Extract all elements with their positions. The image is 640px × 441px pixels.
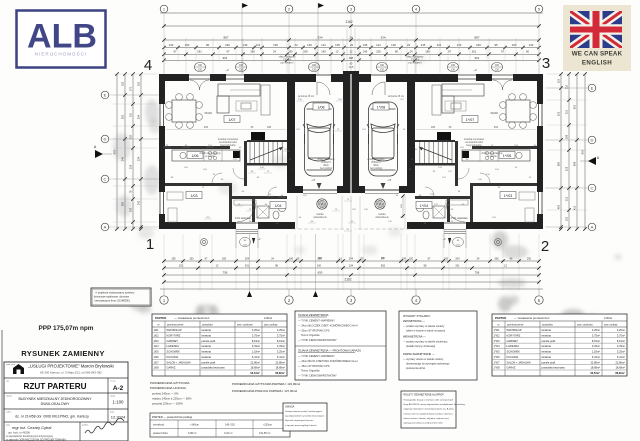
left witness lines: [113, 73, 157, 75]
svg-text:24: 24: [349, 35, 353, 39]
svg-text:254: 254: [138, 114, 141, 119]
svg-text:odwodnienie: odwodnienie: [313, 216, 327, 219]
stairs right unit: [451, 142, 453, 163]
svg-text:1*/08: 1*/08: [377, 106, 385, 110]
room table left unit: [152, 314, 287, 376]
window W2 left unit: [159, 192, 161, 214]
svg-text:terakota: terakota: [202, 328, 212, 332]
svg-text:160: 160: [185, 43, 190, 47]
svg-text:✶ projekcie zastosowano system: ✶ projekcie zastosowano systemy: [95, 291, 135, 295]
svg-text:97: 97: [448, 50, 451, 54]
svg-text:NIERUCHOMOŚCI: NIERUCHOMOŚCI: [35, 50, 88, 57]
svg-text:3,25m²: 3,25m²: [277, 350, 285, 354]
window W2 right unit: [541, 192, 543, 214]
svg-text:PPP 175,07m npm: PPP 175,07m npm: [39, 325, 94, 332]
svg-text:280: 280: [122, 201, 125, 206]
svg-text:terakota: terakota: [542, 333, 552, 337]
svg-text:POWIERZCHNIA LICZONA:: POWIERZCHNIA LICZONA:: [150, 386, 187, 390]
svg-text:6,41m²: 6,41m²: [592, 355, 600, 359]
svg-text:SCHOWEK: SCHOWEK: [507, 350, 521, 354]
svg-text:1/07: 1/07: [154, 360, 160, 364]
svg-text:8,19m²: 8,19m²: [277, 339, 285, 343]
svg-text:1/04: 1/04: [154, 344, 160, 348]
tv sideboard left unit: [261, 85, 270, 115]
svg-text:1/06: 1/06: [192, 154, 199, 158]
svg-text:332: 332: [179, 265, 184, 268]
entrance steps left unit: [236, 229, 258, 231]
south wall left unit: [159, 222, 236, 229]
french door with arc right unit: [492, 74, 513, 76]
sheet left border line: [1, 330, 3, 441]
svg-text:wg odpowiednich rysunków branż: wg odpowiednich rysunków branżowych.: [285, 415, 325, 418]
svg-text:22,86m²: 22,86m²: [615, 360, 625, 364]
svg-text:dz. nr 214/58 obr. 0006 KIELPI: dz. nr 214/58 obr. 0006 KIELPINO, gm. Ka…: [15, 415, 89, 419]
svg-text:1*/02: 1*/02: [494, 333, 501, 337]
interior wall office right unit: [470, 183, 537, 186]
north window right unit: [458, 74, 476, 76]
top axis line: [160, 12, 543, 14]
north window left unit: [226, 74, 244, 76]
svg-text:— podano wymiary w świetle: — podano wymiary w świetle ościeży: [403, 325, 445, 328]
svg-text:— zestawienie pomieszczeń: — zestawienie pomieszczeń: [514, 316, 550, 320]
svg-text:121: 121: [437, 43, 442, 47]
svg-text:1,18m²: 1,18m²: [252, 350, 260, 354]
svg-text:ŚCIANA ZEWNĘTRZNA: ŚCIANA ZEWNĘTRZNA: [298, 312, 329, 317]
svg-text:97: 97: [501, 50, 504, 54]
interior wall bath left unit: [232, 196, 287, 199]
svg-text:1/07: 1/07: [229, 118, 236, 122]
svg-text:130: 130: [529, 43, 534, 47]
WE CAN SPEAK ENGLISH badge: [563, 5, 631, 71]
svg-text:242: 242: [138, 200, 141, 205]
interior wall stairs right unit: [455, 141, 458, 186]
svg-text:262: 262: [122, 114, 125, 119]
garage door opening right: [365, 189, 399, 191]
svg-text:terakota: terakota: [202, 333, 212, 337]
door marker right entrance: [453, 237, 464, 246]
svg-text:130: 130: [307, 43, 312, 47]
svg-text:chudy murowany: chudy murowany: [367, 158, 385, 161]
bottom witness lines: [163, 234, 165, 290]
svg-text:3,75m²: 3,75m²: [277, 333, 285, 337]
right dimension chain x569: [568, 74, 570, 229]
north wall right unit: [513, 74, 543, 81]
title block table: [4, 362, 128, 441]
right section arrow A: [588, 157, 596, 165]
north wall left unit: [159, 74, 189, 81]
interior wall bath right unit: [415, 196, 470, 199]
svg-text:10,5: 10,5: [349, 66, 354, 69]
svg-text:22,86m²: 22,86m²: [275, 360, 285, 364]
svg-text:121: 121: [256, 43, 261, 47]
svg-text:100: 100: [317, 265, 322, 268]
svg-text:pow. podłogi: pow. podłogi: [604, 324, 618, 327]
svg-text:3,75m²: 3,75m²: [592, 333, 600, 337]
svg-text:SALON + JADALNIA: SALON + JADALNIA: [167, 360, 191, 364]
svg-text:−15: −15: [311, 178, 316, 182]
svg-text:terakota: terakota: [542, 350, 552, 354]
svg-text:210: 210: [566, 84, 569, 89]
interior wall stairs left unit: [244, 141, 247, 186]
svg-text:334: 334: [349, 265, 354, 268]
svg-text:upr. bud. nr 46306: upr. bud. nr 46306: [8, 431, 30, 435]
svg-text:205: 205: [303, 50, 308, 54]
svg-text:1*/05: 1*/05: [494, 350, 501, 354]
svg-text:D: D: [591, 138, 594, 143]
svg-text:3,98 m²: 3,98 m²: [188, 432, 197, 435]
svg-text:ROLETY ZEWNĘTRZNE ALUPROF: ROLETY ZEWNĘTRZNE ALUPROF: [404, 394, 445, 397]
svg-text:24: 24: [407, 43, 411, 47]
svg-text:3,33m²: 3,33m²: [277, 344, 285, 348]
garage room label left: [313, 103, 329, 110]
svg-text:posadzka: posadzka: [542, 324, 553, 327]
svg-text:„USŁUGI PROJEKTOWE” Marcin Bry: „USŁUGI PROJEKTOWE” Marcin Brylowski: [28, 364, 113, 369]
svg-text:posadzka betonowa: posadzka betonowa: [542, 366, 566, 370]
svg-text:terakota: terakota: [542, 344, 552, 348]
svg-text:415: 415: [574, 205, 577, 210]
svg-text:A: A: [591, 225, 594, 230]
svg-text:pow. podłogi: pow. podłogi: [264, 324, 278, 327]
svg-text:216: 216: [130, 164, 133, 169]
svg-text:961: 961: [475, 56, 480, 60]
svg-text:rys.: rys.: [6, 380, 10, 383]
svg-text:adres: adres: [6, 411, 12, 414]
top section marker C: [318, 3, 324, 8]
svg-text:240: 240: [225, 43, 230, 47]
svg-text:montaż rolet na nadokiennikowe: montaż rolet na nadokiennikowej stolarce…: [404, 412, 453, 415]
room label kuchnia left: [187, 152, 203, 159]
svg-text:(okna narożne, łukowe, trójkąt: (okna narożne, łukowe, trójkątne, wykusz…: [404, 417, 450, 420]
svg-text:66,53m²: 66,53m²: [250, 371, 260, 375]
svg-text:336: 336: [289, 258, 294, 261]
svg-text:POWIERZCHNIA PODŁOGI PARTERU:: POWIERZCHNIA PODŁOGI PARTERU: 137,30m2: [232, 389, 298, 393]
svg-text:6,41m²: 6,41m²: [252, 355, 260, 359]
svg-text:961: 961: [223, 56, 228, 60]
svg-text:125: 125: [359, 258, 364, 261]
svg-text:3: 3: [542, 55, 550, 72]
svg-text:1*/08: 1*/08: [494, 366, 501, 370]
svg-text:318: 318: [566, 166, 569, 171]
garage front wall left: [295, 186, 303, 193]
left dimension chain x125: [124, 74, 126, 229]
svg-text:121: 121: [321, 43, 326, 47]
svg-text:145: 145: [321, 50, 326, 54]
svg-text:398: 398: [349, 57, 354, 60]
svg-text:116: 116: [130, 134, 133, 139]
svg-text:525: 525: [558, 111, 561, 116]
svg-text:130: 130: [243, 43, 248, 47]
svg-text:(światło futryny drzwiowej): (światło futryny drzwiowej): [406, 345, 435, 348]
svg-text:201: 201: [455, 265, 460, 268]
door marker left entrance: [240, 237, 251, 246]
floor area small table: [150, 413, 290, 437]
interior wall kitchen left unit: [165, 146, 230, 149]
svg-text:186: 186: [250, 50, 255, 54]
svg-text:294: 294: [349, 258, 354, 261]
svg-text:terakota: terakota: [202, 350, 212, 354]
svg-text:1:100: 1:100: [113, 400, 125, 405]
garage north wall right: [386, 74, 407, 82]
svg-text:DWULOKALOWY: DWULOKALOWY: [41, 402, 70, 406]
svg-text:463: 463: [204, 126, 209, 129]
svg-text:bez podlogi: bez podlogi: [320, 168, 332, 170]
garage middle wall left: [343, 71, 351, 193]
storage shelf right unit: [446, 200, 468, 205]
south wall right unit: [466, 222, 543, 229]
svg-text:i wentylacyjne firmy SCHIEDEL: i wentylacyjne firmy SCHIEDEL: [94, 299, 131, 303]
svg-text:36cm: 36cm: [373, 165, 379, 167]
right dimension chain x585 total: [584, 74, 586, 229]
svg-text:650: 650: [318, 271, 323, 275]
svg-text:Rysunek rozpatrywać łącznie: Rysunek rozpatrywać łącznie: [285, 419, 314, 422]
svg-text:szerokość: szerokość: [153, 424, 165, 427]
svg-text:terakota: terakota: [542, 355, 552, 359]
room table right unit: [492, 314, 627, 376]
top dimension chain axis spans: [164, 39, 539, 41]
top section marker B: [242, 3, 248, 8]
svg-text:(okień w ścianie w stanie suro: (okień w ścianie w stanie surowym): [406, 330, 445, 333]
svg-text:−2: −2: [473, 68, 477, 72]
svg-text:>220cm: >220cm: [263, 424, 272, 427]
svg-text:dostosowując do wymogów wyb: dostosowując do wymogów wybranego: [406, 363, 450, 366]
tv sideboard right unit: [432, 85, 441, 115]
svg-text:WIATROŁAP: WIATROŁAP: [167, 328, 182, 332]
schiedel note box: [91, 288, 151, 306]
svg-text:186: 186: [425, 50, 430, 54]
room label gabinet left: [186, 192, 202, 199]
svg-text:83-300 Kartuzy, ul. 3 Maja 2/1: 83-300 Kartuzy, ul. 3 Maja 2/11, tel 666…: [40, 371, 102, 375]
svg-text:PARTER: PARTER: [495, 316, 506, 320]
svg-text:334: 334: [380, 35, 385, 39]
svg-text:3,25m²: 3,25m²: [617, 328, 625, 332]
svg-text:22,86m²: 22,86m²: [590, 360, 600, 364]
svg-text:1/05: 1/05: [154, 350, 160, 354]
svg-text:UWAGA: UWAGA: [285, 406, 295, 409]
svg-text:nr: nr: [497, 324, 499, 327]
svg-text:135: 135: [335, 43, 340, 47]
svg-text:1*/06: 1*/06: [494, 355, 501, 359]
svg-text:8,19m²: 8,19m²: [592, 339, 600, 343]
svg-text:ZEWNĘTRZNA —: ZEWNĘTRZNA —: [403, 319, 425, 323]
uwaga note box: [283, 403, 327, 431]
bathroom fixtures right unit: [433, 206, 445, 218]
svg-text:ŁAZIENKA: ŁAZIENKA: [167, 344, 180, 348]
svg-text:170: 170: [130, 86, 133, 91]
svg-text:podpis: podpis: [82, 425, 89, 427]
svg-text:1*/06: 1*/06: [503, 154, 511, 158]
svg-text:215: 215: [566, 196, 569, 201]
svg-text:88,86m²: 88,86m²: [615, 371, 625, 375]
garage depth dim 215: [402, 196, 404, 216]
svg-text:w stropie: w stropie: [205, 155, 215, 158]
svg-text:159: 159: [402, 258, 407, 261]
right dimension chain x561: [560, 74, 562, 229]
svg-text:150: 150: [409, 258, 414, 261]
svg-text:DRZWI ZEWNĘTRZNE —: DRZWI ZEWNĘTRZNE —: [403, 352, 435, 356]
svg-text:12: 12: [350, 50, 353, 54]
svg-text:SALON + JADALNIA: SALON + JADALNIA: [507, 360, 531, 364]
svg-text:205: 205: [376, 50, 381, 54]
driveway dashed left: [296, 196, 298, 229]
svg-text:biegi schodów: biegi schodów: [220, 144, 235, 147]
svg-text:652: 652: [381, 265, 386, 268]
svg-text:88,86m²: 88,86m²: [275, 371, 285, 375]
svg-text:200 cm²: 200 cm²: [283, 59, 292, 62]
svg-text:1*/04: 1*/04: [494, 344, 501, 348]
svg-text:1,18m²: 1,18m²: [592, 350, 600, 354]
interior door arcs left unit: [233, 168, 244, 179]
svg-text:1: 1: [146, 236, 154, 253]
svg-text:3,32 m²: 3,32 m²: [224, 432, 233, 435]
svg-text:1/01: 1/01: [154, 328, 160, 332]
svg-text:186: 186: [566, 134, 569, 139]
svg-text:— TYNK CEMENT.-WAPIENNY: — TYNK CEMENT.-WAPIENNY: [298, 319, 335, 323]
svg-text:WYMIARY STOLARKI:: WYMIARY STOLARKI:: [403, 314, 431, 318]
svg-text:1/01 wiatrołap: 1/01 wiatrołap: [235, 216, 252, 220]
wall construction spec box: [295, 311, 386, 380]
svg-text:firmy ALUPROF należy odpowiedn: firmy ALUPROF należy odpowiednio zmodyfi…: [404, 403, 466, 406]
svg-text:odwodnienie: odwodnienie: [375, 216, 389, 219]
svg-text:130: 130: [566, 216, 569, 221]
svg-text:z opisami poszczególnych branż: z opisami poszczególnych branż.: [285, 424, 317, 427]
svg-text:pod stropem: pod stropem: [281, 62, 294, 65]
svg-text:terakota: terakota: [542, 328, 552, 332]
svg-text:<140cm: <140cm: [190, 424, 199, 427]
left dimension chain x141: [140, 74, 142, 229]
svg-text:−2: −2: [225, 68, 229, 72]
coffee table rug left unit: [236, 101, 257, 111]
right witness lines: [547, 73, 587, 75]
svg-text:97: 97: [174, 50, 177, 54]
svg-text:6,41m²: 6,41m²: [277, 355, 285, 359]
left section arrow A: [95, 150, 103, 158]
car right garage: [367, 102, 399, 176]
garage front wall right: [399, 186, 407, 193]
svg-text:22,86m²: 22,86m²: [250, 360, 260, 364]
office desk right unit: [519, 192, 535, 200]
svg-text:Termo Organika: Termo Organika: [301, 333, 320, 337]
bottom axis line: [160, 288, 543, 290]
svg-text:200 cm²: 200 cm²: [411, 59, 420, 62]
svg-text:12: 12: [336, 50, 339, 54]
svg-text:panele podł.: panele podł.: [202, 339, 216, 343]
dining table right unit: [506, 100, 530, 122]
mid bottom dim chain: [350, 196, 352, 258]
svg-text:WEWNĘTRZNA —: WEWNĘTRZNA —: [403, 335, 426, 339]
svg-text:bez podlogi: bez podlogi: [370, 168, 382, 170]
svg-text:3,25m²: 3,25m²: [592, 328, 600, 332]
witness lines top: [163, 38, 165, 73]
building plan group: [159, 62, 543, 258]
svg-text:powierzchnia: powierzchnia: [153, 432, 168, 435]
svg-text:— 20cm STYROPIAN CPS: — 20cm STYROPIAN CPS: [298, 329, 330, 333]
svg-text:WIATROŁAP: WIATROŁAP: [507, 328, 522, 332]
garage room label right: [373, 103, 389, 110]
car left garage: [303, 102, 335, 176]
svg-text:204: 204: [455, 258, 460, 261]
svg-text:336: 336: [494, 258, 499, 261]
svg-text:pow. użytkowa: pow. użytkowa: [237, 324, 253, 327]
svg-text:SCHOWEK: SCHOWEK: [167, 350, 181, 354]
svg-text:135: 135: [273, 43, 278, 47]
kitchen counter right unit: [462, 150, 530, 161]
svg-text:1*/03: 1*/03: [494, 339, 501, 343]
room label lazienka right: [416, 202, 432, 209]
office desk left unit: [167, 192, 183, 200]
svg-text:97: 97: [227, 50, 230, 54]
svg-text:8,19m²: 8,19m²: [617, 339, 625, 343]
garage side door left: [316, 74, 331, 76]
svg-text:poniżej 140cm — 0%: poniżej 140cm — 0%: [152, 392, 179, 396]
exterior wall west left unit: [159, 74, 165, 104]
svg-text:145: 145: [363, 50, 368, 54]
garage middle wall gap line: [350, 74, 352, 193]
svg-text:ŚCIANA ZEWNĘTRZNA — FRONTOWA G: ŚCIANA ZEWNĘTRZNA — FRONTOWA GARAŻU: [298, 348, 361, 353]
rolety aluprof box: [401, 391, 456, 428]
svg-text:3,33m²: 3,33m²: [617, 344, 625, 348]
entrance door right unit: [444, 222, 466, 224]
svg-text:3,33m²: 3,33m²: [592, 344, 600, 348]
svg-text:1*/01: 1*/01: [494, 328, 501, 332]
left axis markers: [101, 91, 109, 99]
svg-text:WE CAN SPEAK: WE CAN SPEAK: [572, 51, 623, 58]
left dimension chain x117 total: [116, 74, 118, 229]
svg-text:240: 240: [476, 43, 481, 47]
svg-text:1/08: 1/08: [154, 366, 160, 370]
room label gabinet right: [500, 192, 516, 199]
svg-text:887: 887: [474, 35, 479, 39]
svg-text:±0,00: ±0,00: [490, 111, 498, 115]
svg-text:130: 130: [130, 207, 133, 212]
svg-text:1/02: 1/02: [154, 333, 160, 337]
svg-text:602: 602: [574, 104, 577, 109]
signature scribble: [85, 418, 124, 433]
svg-text:posadzka betonowa: posadzka betonowa: [202, 366, 226, 370]
svg-text:1*/07: 1*/07: [466, 118, 474, 122]
svg-text:261: 261: [197, 50, 202, 54]
svg-text:756: 756: [475, 271, 480, 275]
svg-text:C: C: [591, 186, 594, 191]
svg-text:wymaga konsultacji z producent: wymaga konsultacji z producentem rolet.: [404, 422, 444, 425]
svg-text:E: E: [104, 93, 107, 98]
svg-text:w stropie: w stropie: [487, 155, 497, 158]
window W1 left unit: [159, 104, 161, 126]
svg-text:2050x2,5: 2050x2,5: [371, 162, 381, 164]
svg-text:18,68m²: 18,68m²: [615, 366, 625, 370]
svg-text:— podano wymiary w świetle: — podano wymiary w świetle ościeżnicy: [403, 341, 448, 344]
svg-text:18,68m²: 18,68m²: [250, 366, 260, 370]
svg-text:159: 159: [171, 258, 176, 261]
svg-text:pod stropem: pod stropem: [409, 62, 422, 65]
entrance door left unit: [236, 222, 258, 224]
svg-text:chudy murowany: chudy murowany: [317, 158, 335, 161]
svg-text:C: C: [104, 177, 107, 182]
svg-text:24: 24: [410, 50, 413, 54]
survey point right: [495, 239, 502, 246]
svg-text:168: 168: [267, 126, 272, 129]
bottom dimension chain total: [164, 281, 539, 283]
svg-text:GABINET: GABINET: [507, 339, 519, 343]
bottom section marker B: [247, 291, 252, 297]
svg-text:PARTER — powierzchnia podł: PARTER — powierzchnia podłogi: [152, 415, 192, 419]
bottom section marker C: [313, 291, 318, 297]
svg-text:165: 165: [222, 258, 227, 261]
svg-text:producenta drzwi.: producenta drzwi.: [406, 367, 426, 370]
top dimension chain detail row 1: [164, 47, 539, 49]
exterior wall west right unit: [537, 74, 543, 104]
svg-text:80: 80: [395, 50, 398, 54]
top dimension chain row 3 (961): [164, 59, 539, 61]
